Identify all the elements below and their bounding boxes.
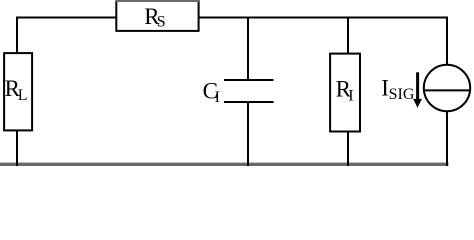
svg-text:I: I <box>215 89 220 106</box>
arrow current direction <box>413 72 422 108</box>
wire left vertical drop <box>16 17 18 54</box>
wire below R_L <box>16 131 18 167</box>
wire R_I bottom <box>347 132 349 167</box>
svg-text:S: S <box>157 13 166 30</box>
wire current source top <box>446 17 448 66</box>
resistor R_S <box>115 1 199 31</box>
label I_SIG <box>381 76 415 104</box>
svg-text:I: I <box>348 87 353 104</box>
capacitor C_I <box>224 17 274 167</box>
svg-text:L: L <box>18 87 28 104</box>
wire current source bottom <box>446 111 448 166</box>
resistor R_L <box>4 53 32 130</box>
wire top-right horizontal <box>198 17 448 19</box>
label C_I <box>203 79 220 107</box>
wire R_I top <box>347 17 349 54</box>
wire top-left horizontal <box>16 17 116 19</box>
current source U1 I_SIG circle <box>424 65 470 111</box>
resistor R_I <box>330 54 360 132</box>
ground bus (bottom rail) <box>0 163 448 166</box>
svg-text:SIG: SIG <box>389 86 415 103</box>
